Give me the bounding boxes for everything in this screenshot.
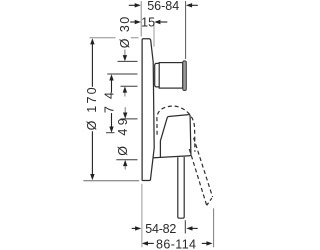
dimension Ø49 lower arrow (pointing up) — [124, 165, 126, 169]
escutcheon plate (side profile) — [142, 39, 154, 181]
svg-text:74: 74 — [103, 92, 117, 113]
extension line hub bottom (for dim 49) — [116, 159, 137, 161]
dimension 74 bottom arrow — [109, 127, 113, 133]
extension line cap end (for dim 56-84) — [185, 1, 187, 59]
extension line dashed lever end (for dim 86-114) — [213, 208, 215, 247]
svg-text:86-114: 86-114 — [156, 238, 196, 250]
dimension 15 left arrow — [130, 21, 135, 23]
dashed lever tip (alternate position) — [207, 197, 213, 205]
dashed lever upper edge (alternate position) — [194, 138, 213, 197]
cartridge flange — [155, 63, 160, 87]
svg-text:Ø 49: Ø 49 — [116, 118, 130, 156]
extension line cartridge top (for dim 30) — [118, 60, 138, 62]
extension line handle axis (for dim 74) — [106, 132, 115, 134]
extension line hub top (for dim 49) — [121, 118, 138, 120]
svg-text:Ø 170: Ø 170 — [85, 87, 99, 130]
extension line lever end (for dim 54-82) — [184, 220, 186, 233]
svg-text:15: 15 — [141, 15, 155, 29]
dimension Ø170 top arrow — [90, 38, 94, 44]
svg-text:Ø 30: Ø 30 — [118, 17, 132, 49]
extension line plate bottom (for dim 170) — [83, 180, 139, 182]
dimension 86-114 right arrow (inside, pointing right) — [202, 242, 207, 244]
svg-text:54-82: 54-82 — [145, 222, 176, 236]
dimension Ø30 lower arrow (pointing up) — [124, 92, 126, 97]
dimension 86-114 left arrow (inside, pointing left) — [148, 242, 154, 244]
dashed lever lower edge (alternate position) — [189, 149, 206, 205]
dimension 15 right arrow — [160, 21, 167, 23]
dimension 74 top arrow — [109, 74, 113, 80]
dimension 54-82 left arrow (outside, pointing right) — [132, 227, 136, 229]
dashed handle hub (alternate position) — [157, 106, 195, 152]
dimension Ø49 upper arrow (pointing down) — [124, 107, 126, 113]
dimension Ø30 upper arrow (pointing down) — [124, 50, 126, 57]
extension line plate face vertical bottom (for dims 54-82 and 86-114) — [141, 184, 143, 248]
dimension Ø170 line — [91, 42, 93, 177]
dimension 74 line — [111, 78, 113, 130]
cartridge cylinder — [159, 63, 183, 89]
cartridge end cap — [183, 61, 187, 91]
extension line cartridge bottom (for dim 30) — [121, 85, 138, 87]
extension line plate face vertical top (for dims 56-84 and 15) — [140, 1, 142, 37]
dimension 54-82 right arrow (outside, pointing left) — [193, 227, 198, 229]
extension line cartridge axis (for dim 74) — [107, 73, 137, 75]
handle hub — [153, 115, 191, 158]
dimension 56-84 left arrow — [129, 4, 135, 6]
handle lever — [178, 157, 184, 218]
extension line plate top (for dim 170) — [90, 37, 139, 39]
svg-text:56-84: 56-84 — [147, 0, 179, 13]
dimension Ø170 bottom arrow — [90, 174, 94, 180]
dimension 56-84 right arrow — [192, 4, 198, 6]
extension line flange face (for dim 15) — [153, 24, 155, 47]
